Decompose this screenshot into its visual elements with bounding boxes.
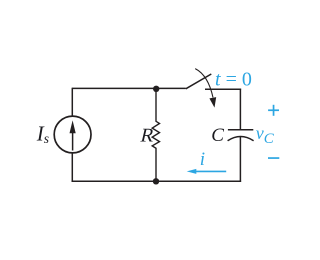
wire: right branch lower bbox=[239, 137, 241, 182]
svg-text:t = 0: t = 0 bbox=[215, 69, 252, 91]
wire: bottom segment bbox=[72, 180, 242, 182]
svg-text:C: C bbox=[211, 125, 224, 146]
svg-text:i: i bbox=[200, 149, 205, 170]
current arrow i bbox=[187, 169, 227, 174]
wire: left branch lower bbox=[71, 154, 73, 183]
junction dot: bottom node bbox=[153, 178, 159, 184]
resistor R bbox=[152, 88, 159, 181]
polarity plus bbox=[268, 105, 279, 116]
svg-text:vC: vC bbox=[256, 123, 275, 147]
wire: top right segment (switch contact to corner) bbox=[205, 88, 241, 90]
switch blade bbox=[186, 74, 212, 89]
junction dot: top node bbox=[153, 86, 159, 92]
wire: left branch upper bbox=[71, 88, 73, 116]
polarity minus bbox=[268, 157, 279, 159]
wire: right branch upper bbox=[239, 89, 241, 130]
switch closing arrow bbox=[195, 69, 216, 108]
wire: top left segment (current source to switch) bbox=[72, 87, 186, 89]
current source Is bbox=[54, 116, 91, 153]
capacitor C bbox=[228, 130, 254, 141]
svg-text:Is: Is bbox=[36, 122, 49, 147]
